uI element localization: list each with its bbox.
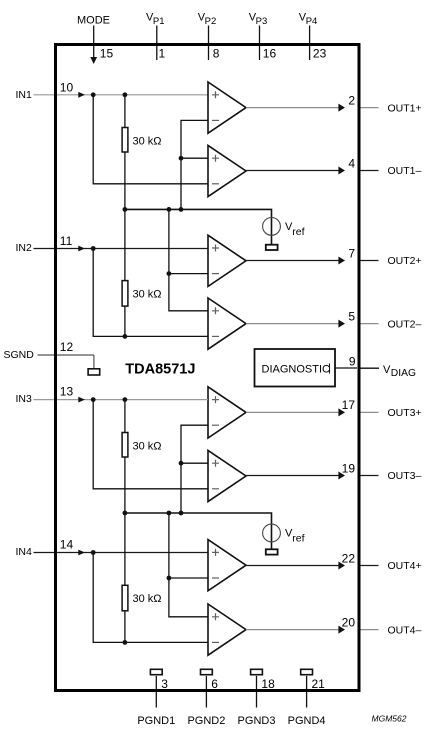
svg-text:ref: ref xyxy=(292,226,304,238)
wire PGND3 xyxy=(256,676,258,708)
PGND1 label xyxy=(137,715,175,727)
svg-text:P4: P4 xyxy=(306,16,318,27)
PGND4 label xyxy=(288,715,326,727)
wire IN1 to U2 inverting input xyxy=(93,95,208,184)
svg-text:OUT1+: OUT1+ xyxy=(388,102,422,114)
wire R3 top lead xyxy=(124,400,126,433)
node U3 minus junction xyxy=(167,271,172,276)
arrow on IN3 wire xyxy=(78,397,85,403)
wire Vref rail upper xyxy=(125,209,272,245)
node rail2 x169 xyxy=(167,511,172,516)
pin 15 MODE wire with down arrow xyxy=(90,26,97,65)
pin 6 number xyxy=(211,677,218,691)
svg-text:PGND2: PGND2 xyxy=(187,715,225,727)
node R2 to U4 minus line xyxy=(123,334,128,339)
wire IN2 input xyxy=(34,248,209,250)
IC body outline box xyxy=(56,45,360,691)
OUT2+ label xyxy=(388,255,422,267)
op-amp U2 xyxy=(208,145,246,196)
svg-text:4: 4 xyxy=(348,156,355,170)
IN2 label xyxy=(16,242,33,254)
Vref2 label xyxy=(285,528,305,545)
SGND label xyxy=(4,349,35,361)
wire OUT2- external xyxy=(361,323,379,325)
wire OUT2+ output xyxy=(246,260,339,262)
PGND2 pad xyxy=(201,669,213,674)
pin 5 number xyxy=(348,309,355,323)
svg-text:9: 9 xyxy=(349,354,356,368)
svg-text:13: 13 xyxy=(60,385,74,399)
svg-text:IN1: IN1 xyxy=(16,89,33,101)
pin 17 number xyxy=(342,398,356,412)
OUT3+ label xyxy=(388,407,422,419)
op-amp U4 xyxy=(208,298,246,349)
R2 value label xyxy=(133,289,162,301)
svg-text:3: 3 xyxy=(161,677,168,691)
VP3 label xyxy=(249,12,268,27)
svg-text:1: 1 xyxy=(159,47,166,61)
resistor R4 30 k&#937; xyxy=(122,585,128,611)
svg-text:OUT1–: OUT1– xyxy=(388,165,422,177)
node IN2 junction xyxy=(91,246,96,251)
op-amp U1 xyxy=(208,82,246,133)
pin 1 number xyxy=(159,47,166,61)
svg-text:PGND1: PGND1 xyxy=(137,715,175,727)
svg-text:2: 2 xyxy=(348,93,355,107)
svg-text:12: 12 xyxy=(60,340,74,354)
pin 1 VP1 wire xyxy=(156,26,158,61)
svg-text:DIAGNOSTIC: DIAGNOSTIC xyxy=(262,364,331,376)
wire R4 bottom lead xyxy=(124,611,126,643)
svg-text:30 kΩ: 30 kΩ xyxy=(133,441,162,453)
svg-text:IN3: IN3 xyxy=(16,393,33,405)
svg-text:14: 14 xyxy=(60,538,74,552)
svg-text:P3: P3 xyxy=(256,16,268,27)
arrow on IN4 wire xyxy=(78,550,85,556)
arrow on IN2 wire xyxy=(78,246,85,252)
wire OUT4- external xyxy=(361,629,379,631)
Vref1 ground pad xyxy=(266,245,278,250)
pin 10 number xyxy=(60,80,74,94)
wire pin 9 external xyxy=(361,367,380,369)
svg-text:DIAG: DIAG xyxy=(391,368,416,379)
wire U3 inverting input xyxy=(169,273,208,275)
pin 23 VP4 wire xyxy=(309,26,311,61)
wire DIAGNOSTIC to pin 9 xyxy=(335,367,357,369)
svg-text:30 kΩ: 30 kΩ xyxy=(133,593,162,605)
node R4 to U8 minus line xyxy=(123,640,128,645)
node IN3 junction A xyxy=(91,397,96,402)
wire OUT4- output xyxy=(246,629,339,631)
wire OUT4+ external xyxy=(361,565,379,567)
svg-text:P1: P1 xyxy=(153,16,165,27)
wire OUT2+ external xyxy=(361,260,379,262)
arrow OUT2+ xyxy=(338,257,345,265)
DIAGNOSTIC block xyxy=(255,349,336,387)
svg-text:23: 23 xyxy=(313,47,327,61)
svg-text:20: 20 xyxy=(342,615,356,629)
pin 8 number xyxy=(213,47,220,61)
Vref source 1 circle xyxy=(263,218,281,236)
svg-text:PGND4: PGND4 xyxy=(288,715,326,727)
wire R1 bottom lead to Vref rail xyxy=(124,152,126,210)
wire R2 bottom lead xyxy=(124,306,126,336)
svg-text:OUT3–: OUT3– xyxy=(388,470,422,482)
svg-text:PGND3: PGND3 xyxy=(238,715,276,727)
arrow OUT1- xyxy=(338,167,345,175)
arrow OUT4+ xyxy=(338,562,345,570)
OUT1+ label xyxy=(388,102,422,114)
resistor R2 30 k&#937; xyxy=(122,281,128,307)
wire SGND xyxy=(38,354,94,356)
arrow OUT3- xyxy=(338,472,345,480)
pin 16 number xyxy=(263,47,277,61)
op-amp U6 xyxy=(208,450,246,501)
svg-text:OUT2–: OUT2– xyxy=(388,318,422,330)
svg-text:SGND: SGND xyxy=(4,349,35,361)
wire IN4 input xyxy=(34,552,209,554)
wire IN2 to U4 inverting input xyxy=(93,249,208,337)
wire R1 top lead xyxy=(124,95,126,128)
R3 value label xyxy=(133,441,162,453)
figure code MGM562 xyxy=(372,714,407,724)
svg-text:18: 18 xyxy=(261,677,275,691)
MODE label xyxy=(77,15,110,27)
pin 11 number xyxy=(60,234,73,248)
wire U5 inverting input to rail 2 xyxy=(181,425,208,513)
wire OUT1- output xyxy=(246,170,339,172)
svg-text:22: 22 xyxy=(342,551,356,565)
wire OUT1+ external xyxy=(361,107,379,109)
IN4 label xyxy=(16,546,33,558)
pin 8 VP2 wire xyxy=(208,26,210,61)
wire rail2 to R4 xyxy=(124,513,126,585)
op-amp U8 xyxy=(208,604,246,655)
pin 18 number xyxy=(261,677,275,691)
wire Vref rail lower xyxy=(125,513,272,549)
Vref1 label xyxy=(285,221,305,238)
pin 7 number xyxy=(348,246,355,260)
VP4 label xyxy=(299,12,318,27)
svg-text:16: 16 xyxy=(263,47,277,61)
wire IN4 to U8 inverting input xyxy=(93,553,208,643)
pin 22 number xyxy=(342,551,356,565)
DIAGNOSTIC text xyxy=(262,364,331,376)
VP2 label xyxy=(198,12,217,27)
pin 21 number xyxy=(312,677,326,691)
wire U6 non-inverting input xyxy=(181,462,208,464)
wire IN3 to U6 inverting input xyxy=(93,400,208,489)
wire rail2 to U8 non-inverting input xyxy=(169,513,208,617)
node IN1 junction A xyxy=(91,92,96,97)
op-amp U7 xyxy=(208,540,246,591)
wire OUT3- external xyxy=(361,475,379,477)
SGND ground pad xyxy=(88,369,100,375)
wire OUT4+ output xyxy=(246,565,339,567)
PGND4 pad xyxy=(301,669,313,674)
svg-text:8: 8 xyxy=(213,47,220,61)
svg-text:P2: P2 xyxy=(205,16,217,27)
resistor R3 30 k&#937; xyxy=(122,433,128,458)
arrow OUT1+ xyxy=(338,104,345,112)
pin 2 number xyxy=(348,93,355,107)
IN3 label xyxy=(16,393,33,405)
svg-text:21: 21 xyxy=(312,677,326,691)
svg-text:OUT3+: OUT3+ xyxy=(388,407,422,419)
wire OUT3- output xyxy=(246,475,339,477)
node U6 plus junction xyxy=(179,461,184,466)
wire rail1 to R2 xyxy=(124,209,126,280)
svg-text:10: 10 xyxy=(60,80,74,94)
svg-text:15: 15 xyxy=(100,47,114,61)
node U2 plus junction xyxy=(179,156,184,161)
wire U1 inverting input to rail xyxy=(181,120,208,209)
arrow OUT3+ xyxy=(338,408,345,416)
wire OUT1+ output xyxy=(246,107,339,109)
svg-text:OUT2+: OUT2+ xyxy=(388,255,422,267)
svg-text:OUT4–: OUT4– xyxy=(388,624,422,636)
svg-text:17: 17 xyxy=(342,398,356,412)
svg-text:TDA8571J: TDA8571J xyxy=(125,362,195,378)
svg-text:5: 5 xyxy=(348,309,355,323)
svg-text:MGM562: MGM562 xyxy=(372,714,407,724)
pin 14 number xyxy=(60,538,74,552)
svg-text:MODE: MODE xyxy=(77,15,110,27)
pin 12 number xyxy=(60,340,74,354)
svg-text:11: 11 xyxy=(60,234,73,248)
op-amp U5 xyxy=(208,387,246,438)
pin 13 number xyxy=(60,385,74,399)
pin 15 number xyxy=(100,47,114,61)
wire PGND1 xyxy=(155,676,157,708)
pin 3 number xyxy=(161,677,168,691)
OUT1- label xyxy=(388,165,422,177)
wire OUT3+ external xyxy=(361,411,379,413)
PGND3 label xyxy=(238,715,276,727)
Vref source 2 circle xyxy=(263,524,281,542)
wire OUT1- external xyxy=(361,170,379,172)
wire SGND down xyxy=(93,355,95,369)
svg-text:6: 6 xyxy=(211,677,218,691)
svg-text:7: 7 xyxy=(348,246,355,260)
R1 value label xyxy=(133,136,162,148)
wire OUT2- output xyxy=(246,323,339,325)
wire IN1 input xyxy=(34,94,209,96)
node rail2 R3 xyxy=(123,511,128,516)
pin 4 number xyxy=(348,156,355,170)
pin 9 number xyxy=(349,354,356,368)
pin 19 number xyxy=(342,461,356,475)
wire PGND4 xyxy=(306,676,308,708)
svg-text:OUT4+: OUT4+ xyxy=(388,560,422,572)
svg-text:ref: ref xyxy=(292,532,304,544)
TDA8571J part label xyxy=(125,362,195,378)
resistor R1 30 k&#937; xyxy=(122,128,128,153)
node rail1 x181 xyxy=(179,207,184,212)
IN1 label xyxy=(16,89,33,101)
OUT3- label xyxy=(388,470,422,482)
arrow OUT4- xyxy=(338,626,345,634)
wire U7 inverting input xyxy=(169,577,208,579)
wire OUT3+ output xyxy=(246,411,339,413)
node U7 minus junction xyxy=(167,576,172,581)
node IN4 junction xyxy=(91,550,96,555)
svg-text:30 kΩ: 30 kΩ xyxy=(133,289,162,301)
VDIAG label xyxy=(383,364,416,379)
svg-text:30 kΩ: 30 kΩ xyxy=(133,136,162,148)
R4 value label xyxy=(133,593,162,605)
Vref2 ground pad xyxy=(266,549,278,554)
OUT4- label xyxy=(388,624,422,636)
PGND2 label xyxy=(187,715,225,727)
PGND1 pad xyxy=(150,669,162,674)
node IN1 junction B xyxy=(123,92,128,97)
node rail1 R1 xyxy=(123,207,128,212)
arrow on IN1 wire xyxy=(78,92,85,98)
node rail1 x169 xyxy=(167,207,172,212)
node rail2 x181 xyxy=(179,511,184,516)
svg-text:19: 19 xyxy=(342,461,356,475)
op-amp U3 xyxy=(208,235,246,286)
PGND3 pad xyxy=(251,669,263,674)
wire R3 bottom lead to rail 2 xyxy=(124,457,126,513)
arrow OUT2- xyxy=(338,320,345,328)
wire IN3 input xyxy=(34,399,209,401)
OUT4+ label xyxy=(388,560,422,572)
VP1 label xyxy=(146,12,165,27)
svg-text:IN2: IN2 xyxy=(16,242,33,254)
pin 23 number xyxy=(313,47,327,61)
wire U2 non-inverting input xyxy=(181,157,208,159)
svg-text:IN4: IN4 xyxy=(16,546,33,558)
wire PGND2 xyxy=(205,676,207,708)
pin 20 number xyxy=(342,615,356,629)
node IN3 junction B xyxy=(123,397,128,402)
OUT2- label xyxy=(388,318,422,330)
pin 16 VP3 wire xyxy=(259,26,261,61)
wire rail1 to U4 non-inverting input xyxy=(169,209,208,310)
svg-text:V: V xyxy=(383,364,391,376)
